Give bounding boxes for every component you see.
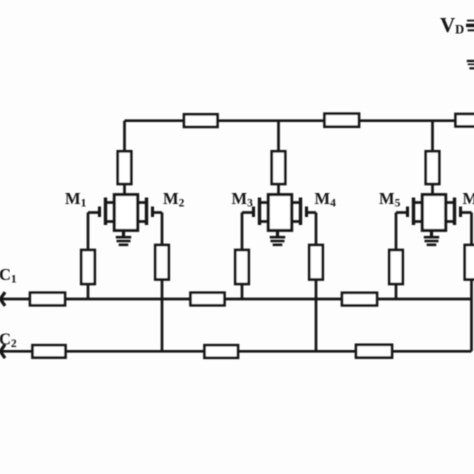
svg-text:M6: M6 [463, 189, 474, 210]
